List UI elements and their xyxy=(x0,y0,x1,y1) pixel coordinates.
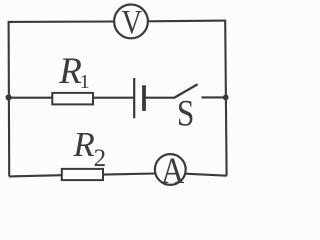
svg-text:1: 1 xyxy=(80,71,90,93)
svg-text:R: R xyxy=(58,51,82,92)
ammeter A xyxy=(155,151,186,192)
svg-text:R: R xyxy=(72,125,94,164)
label R2 xyxy=(72,125,106,172)
node: left junction dot xyxy=(6,94,12,100)
wire: top run, left of voltmeter xyxy=(8,20,114,22)
svg-text:S: S xyxy=(177,93,194,134)
svg-text:A: A xyxy=(161,151,184,192)
wire: bottom run, left corner to R2 xyxy=(9,175,62,176)
wire: ammeter to bottom-right corner xyxy=(186,174,227,176)
resistor R2 xyxy=(62,169,103,180)
wire: R1 to battery xyxy=(94,97,134,99)
wire: left vertical xyxy=(8,22,11,177)
voltmeter V xyxy=(114,3,148,41)
battery cell: short negative plate xyxy=(142,85,146,111)
wire: top run, right of voltmeter xyxy=(148,20,226,23)
svg-text:2: 2 xyxy=(94,145,107,172)
wire: right vertical xyxy=(225,21,226,176)
switch S: open blade xyxy=(173,84,197,98)
label R1 xyxy=(58,51,89,93)
wire: middle branch, left node to R1 xyxy=(9,97,53,99)
wire: battery to switch xyxy=(145,97,174,99)
resistor R1 xyxy=(52,93,93,105)
svg-text:V: V xyxy=(122,3,143,41)
wire: switch to right node xyxy=(202,96,227,98)
wire: R2 to ammeter xyxy=(104,174,157,175)
node: right junction dot xyxy=(223,95,229,101)
battery cell: long positive plate xyxy=(133,78,135,118)
